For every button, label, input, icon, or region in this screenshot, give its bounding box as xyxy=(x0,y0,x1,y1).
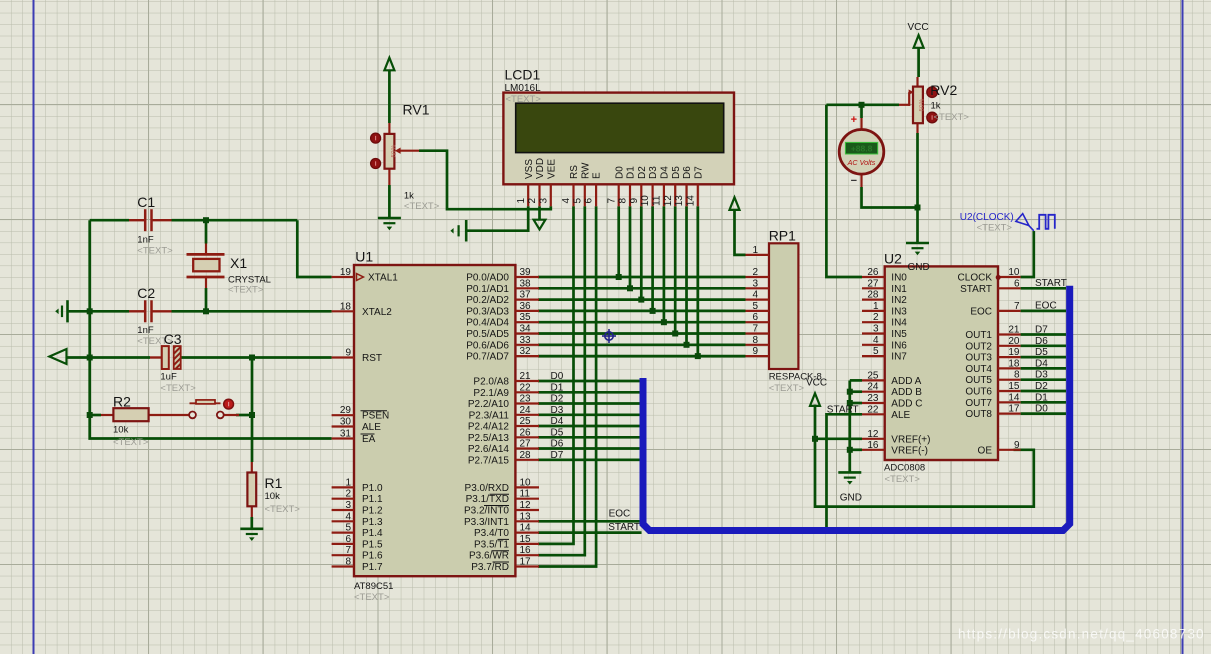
svg-text:2: 2 xyxy=(345,489,351,500)
svg-text:P1.6: P1.6 xyxy=(362,551,383,562)
svg-text:OUT5: OUT5 xyxy=(965,375,992,386)
svg-text:26: 26 xyxy=(520,427,532,438)
svg-text:OUT7: OUT7 xyxy=(965,398,992,409)
svg-text:P2.1/A9: P2.1/A9 xyxy=(473,388,509,399)
svg-text:7: 7 xyxy=(752,324,758,335)
svg-text:31: 31 xyxy=(340,429,352,440)
svg-text:D3: D3 xyxy=(551,405,564,416)
svg-text:P0.3/AD3: P0.3/AD3 xyxy=(466,306,509,317)
svg-text:4: 4 xyxy=(873,335,879,346)
svg-text:P3.0/RXD: P3.0/RXD xyxy=(465,483,509,494)
svg-text:1nF: 1nF xyxy=(137,234,154,245)
svg-text:2: 2 xyxy=(752,267,758,278)
svg-text:RV1: RV1 xyxy=(403,101,430,117)
svg-text:50%: 50% xyxy=(918,98,925,111)
svg-text:21: 21 xyxy=(520,371,532,382)
svg-text:<TEXT>: <TEXT> xyxy=(137,245,173,256)
svg-text:22: 22 xyxy=(867,404,879,415)
svg-text:EOC: EOC xyxy=(609,508,631,519)
svg-text:12: 12 xyxy=(520,500,532,511)
svg-text:EA: EA xyxy=(362,434,376,445)
svg-text:9: 9 xyxy=(752,346,758,357)
svg-text:18: 18 xyxy=(1008,358,1020,369)
svg-text:1: 1 xyxy=(873,301,879,312)
svg-text:14: 14 xyxy=(1008,392,1020,403)
svg-text:OUT2: OUT2 xyxy=(965,341,992,352)
svg-text:17: 17 xyxy=(1008,404,1020,415)
svg-text:28: 28 xyxy=(867,290,879,301)
svg-text:PSEN: PSEN xyxy=(362,411,389,422)
svg-text:<TEXT>: <TEXT> xyxy=(354,592,390,603)
svg-text:ADD A: ADD A xyxy=(891,376,921,387)
svg-text:10k: 10k xyxy=(113,425,129,436)
svg-text:3: 3 xyxy=(345,500,351,511)
svg-text:20: 20 xyxy=(1008,336,1020,347)
svg-text:C3: C3 xyxy=(164,331,182,347)
svg-text:10k: 10k xyxy=(265,491,281,502)
svg-text:XTAL1: XTAL1 xyxy=(368,273,398,284)
svg-text:P0.0/AD0: P0.0/AD0 xyxy=(466,273,509,284)
svg-text:P0.5/AD5: P0.5/AD5 xyxy=(466,329,509,340)
svg-text:P2.6/A14: P2.6/A14 xyxy=(468,444,510,455)
svg-text:27: 27 xyxy=(867,278,879,289)
svg-text:P0.4/AD4: P0.4/AD4 xyxy=(466,318,509,329)
svg-text:D7: D7 xyxy=(551,450,564,461)
svg-text:9: 9 xyxy=(345,348,351,359)
svg-text:P3.3/INT1: P3.3/INT1 xyxy=(464,517,509,528)
svg-text:GND: GND xyxy=(908,262,930,273)
svg-text:6: 6 xyxy=(752,312,758,323)
svg-text:29: 29 xyxy=(340,405,352,416)
svg-text:15: 15 xyxy=(1008,381,1020,392)
svg-text:VCC: VCC xyxy=(908,22,929,33)
svg-text:ADC0808: ADC0808 xyxy=(884,462,925,473)
svg-text:P2.4/A12: P2.4/A12 xyxy=(468,422,510,433)
svg-text:IN6: IN6 xyxy=(891,340,907,351)
svg-text:EOC: EOC xyxy=(970,306,992,317)
svg-text:14: 14 xyxy=(685,195,696,207)
svg-text:D4: D4 xyxy=(551,416,564,427)
svg-text:OUT6: OUT6 xyxy=(965,387,992,398)
svg-text:9: 9 xyxy=(1014,440,1020,451)
svg-text:<TEXT>: <TEXT> xyxy=(977,222,1013,233)
svg-text:7: 7 xyxy=(345,545,351,556)
svg-text:P1.0: P1.0 xyxy=(362,483,383,494)
svg-text:8: 8 xyxy=(618,197,629,203)
svg-text:IN4: IN4 xyxy=(891,318,907,329)
svg-text:<TEXT>: <TEXT> xyxy=(934,112,970,123)
svg-text:VCC: VCC xyxy=(806,377,827,388)
svg-text:6: 6 xyxy=(1014,278,1020,289)
svg-text:P1.7: P1.7 xyxy=(362,562,383,573)
svg-text:D4: D4 xyxy=(660,166,671,179)
svg-text:P3.4/T0: P3.4/T0 xyxy=(474,528,509,539)
svg-text:8: 8 xyxy=(345,557,351,568)
svg-text:D5: D5 xyxy=(671,166,682,179)
svg-text:P3.1/TXD: P3.1/TXD xyxy=(466,494,509,505)
svg-text:LCD1: LCD1 xyxy=(505,67,541,83)
svg-text:D5: D5 xyxy=(1035,347,1048,358)
svg-text:RW: RW xyxy=(580,162,591,179)
svg-text:9: 9 xyxy=(629,197,640,203)
svg-text:U1: U1 xyxy=(355,249,373,265)
svg-text:START: START xyxy=(960,284,992,295)
svg-text:32: 32 xyxy=(520,346,532,357)
svg-text:D4: D4 xyxy=(1035,358,1048,369)
svg-text:ADD C: ADD C xyxy=(891,399,922,410)
svg-text:P0.7/AD7: P0.7/AD7 xyxy=(466,352,509,363)
svg-text:IN7: IN7 xyxy=(891,352,907,363)
svg-text:7: 7 xyxy=(606,197,617,203)
svg-text:D3: D3 xyxy=(648,166,659,179)
svg-text:D2: D2 xyxy=(637,166,648,179)
svg-text:16: 16 xyxy=(520,545,532,556)
svg-text:EOC: EOC xyxy=(1035,300,1057,311)
svg-text:26: 26 xyxy=(867,267,879,278)
svg-text:1uF: 1uF xyxy=(160,372,177,383)
svg-text:28: 28 xyxy=(520,450,532,461)
svg-text:21: 21 xyxy=(1008,325,1020,336)
svg-text:15: 15 xyxy=(520,534,532,545)
svg-text:OUT3: OUT3 xyxy=(965,353,992,364)
svg-text:5: 5 xyxy=(752,301,758,312)
svg-text:P1.4: P1.4 xyxy=(362,528,383,539)
svg-text:RP1: RP1 xyxy=(769,228,796,244)
svg-text:VEE: VEE xyxy=(546,159,557,179)
svg-text:P0.6/AD6: P0.6/AD6 xyxy=(466,340,509,351)
svg-text:+: + xyxy=(851,114,857,126)
svg-text:OUT1: OUT1 xyxy=(965,330,992,341)
svg-text:−: − xyxy=(851,175,857,187)
svg-text:U2: U2 xyxy=(884,251,902,267)
svg-text:1: 1 xyxy=(516,197,527,203)
svg-text:4: 4 xyxy=(561,197,572,203)
svg-text:P2.3/A11: P2.3/A11 xyxy=(469,410,510,421)
svg-text:R1: R1 xyxy=(265,475,283,491)
svg-text:D5: D5 xyxy=(551,427,564,438)
svg-text:R2: R2 xyxy=(113,394,131,410)
svg-text:VSS: VSS xyxy=(524,159,535,179)
svg-text:6: 6 xyxy=(584,197,595,203)
svg-text:CLOCK: CLOCK xyxy=(958,273,993,284)
svg-text:1nF: 1nF xyxy=(137,325,154,336)
svg-text:P0.1/AD1: P0.1/AD1 xyxy=(466,284,509,295)
svg-text:11: 11 xyxy=(520,489,531,500)
svg-text:1: 1 xyxy=(345,477,351,488)
svg-text:5: 5 xyxy=(873,346,879,357)
svg-text:D6: D6 xyxy=(1035,336,1048,347)
svg-text:23: 23 xyxy=(867,393,879,404)
svg-text:P2.7/A15: P2.7/A15 xyxy=(468,455,510,466)
svg-text:5: 5 xyxy=(345,523,351,534)
svg-text:P1.3: P1.3 xyxy=(362,517,383,528)
svg-text:11: 11 xyxy=(652,195,663,206)
svg-text:50%: 50% xyxy=(390,144,397,157)
svg-text:P2.5/A13: P2.5/A13 xyxy=(468,433,510,444)
svg-text:XTAL2: XTAL2 xyxy=(362,307,392,318)
svg-text:1: 1 xyxy=(752,245,758,256)
svg-text:<TEXT>: <TEXT> xyxy=(228,285,264,296)
svg-text:P2.0/A8: P2.0/A8 xyxy=(473,377,509,388)
svg-text:38: 38 xyxy=(520,278,532,289)
svg-text:25: 25 xyxy=(520,416,532,427)
svg-text:22: 22 xyxy=(520,382,532,393)
svg-text:33: 33 xyxy=(520,335,532,346)
svg-text:D6: D6 xyxy=(551,439,564,450)
svg-text:https://blog.csdn.net/qq_40608: https://blog.csdn.net/qq_40608730 xyxy=(958,627,1205,642)
svg-text:34: 34 xyxy=(520,324,532,335)
svg-text:4: 4 xyxy=(752,290,758,301)
svg-text:D1: D1 xyxy=(626,166,637,179)
svg-text:IN0: IN0 xyxy=(891,273,907,284)
svg-text:ALE: ALE xyxy=(891,410,910,421)
svg-text:P0.2/AD2: P0.2/AD2 xyxy=(466,295,509,306)
svg-text:VREF(-): VREF(-) xyxy=(891,445,928,456)
svg-text:13: 13 xyxy=(674,195,685,207)
svg-text:7: 7 xyxy=(1014,301,1020,312)
svg-text:D3: D3 xyxy=(1035,370,1048,381)
svg-text:<TEXT>: <TEXT> xyxy=(885,474,921,485)
svg-text:3: 3 xyxy=(538,197,549,203)
svg-text:ALE: ALE xyxy=(362,422,381,433)
svg-text:27: 27 xyxy=(520,439,532,450)
svg-text:AC Volts: AC Volts xyxy=(847,158,876,167)
svg-text:IN3: IN3 xyxy=(891,306,907,317)
svg-text:12: 12 xyxy=(663,195,674,207)
svg-text:10: 10 xyxy=(640,195,651,207)
svg-text:RS: RS xyxy=(569,165,580,179)
svg-text:13: 13 xyxy=(520,511,532,522)
svg-text:OUT4: OUT4 xyxy=(965,364,992,375)
svg-text:12: 12 xyxy=(867,429,879,440)
svg-text:30: 30 xyxy=(340,417,352,428)
svg-text:1k: 1k xyxy=(404,190,414,201)
svg-text:X1: X1 xyxy=(230,255,247,271)
svg-text:8: 8 xyxy=(752,335,758,346)
svg-text:19: 19 xyxy=(340,267,352,278)
svg-text:D0: D0 xyxy=(1035,404,1048,415)
svg-text:24: 24 xyxy=(867,382,879,393)
svg-text:ADD B: ADD B xyxy=(891,387,922,398)
svg-text:D0: D0 xyxy=(551,371,564,382)
svg-text:LM016L: LM016L xyxy=(505,83,542,94)
svg-text:VDD: VDD xyxy=(535,158,546,179)
svg-text:39: 39 xyxy=(520,267,532,278)
svg-text:D7: D7 xyxy=(1035,325,1048,336)
svg-text:<TEXT>: <TEXT> xyxy=(404,201,440,212)
svg-text:5: 5 xyxy=(572,197,583,203)
svg-text:2: 2 xyxy=(873,312,879,323)
svg-text:P3.6/WR: P3.6/WR xyxy=(469,551,509,562)
svg-text:E: E xyxy=(592,172,603,179)
svg-text:24: 24 xyxy=(520,405,532,416)
svg-text:1k: 1k xyxy=(931,101,941,112)
svg-text:25: 25 xyxy=(867,370,879,381)
svg-text:37: 37 xyxy=(520,290,532,301)
svg-text:2: 2 xyxy=(527,197,538,203)
svg-text:<TEXT>: <TEXT> xyxy=(160,383,196,394)
svg-text:<TEXT>: <TEXT> xyxy=(506,94,542,105)
svg-text:18: 18 xyxy=(340,301,352,312)
svg-text:D6: D6 xyxy=(682,166,693,179)
svg-text:17: 17 xyxy=(520,557,532,568)
svg-text:GND: GND xyxy=(840,492,862,503)
svg-text:IN2: IN2 xyxy=(891,295,907,306)
svg-text:D0: D0 xyxy=(614,166,625,179)
svg-text:RV2: RV2 xyxy=(930,82,957,98)
svg-text:P2.2/A10: P2.2/A10 xyxy=(468,399,510,410)
svg-text:P3.7/RD: P3.7/RD xyxy=(471,562,509,573)
svg-text:35: 35 xyxy=(520,312,532,323)
svg-text:START: START xyxy=(1035,278,1067,289)
svg-text:4: 4 xyxy=(345,511,351,522)
svg-text:<TEXT>: <TEXT> xyxy=(113,437,149,448)
svg-text:P1.5: P1.5 xyxy=(362,539,383,550)
svg-text:OE: OE xyxy=(978,445,993,456)
svg-text:P3.5/T1: P3.5/T1 xyxy=(474,539,509,550)
svg-text:+88.8: +88.8 xyxy=(851,144,873,154)
svg-text:<TEXT>: <TEXT> xyxy=(265,504,301,515)
svg-text:C1: C1 xyxy=(137,194,155,210)
svg-text:START: START xyxy=(827,405,859,416)
svg-text:10: 10 xyxy=(1008,267,1020,278)
svg-text:IN1: IN1 xyxy=(891,284,907,295)
svg-text:C2: C2 xyxy=(137,285,155,301)
svg-text:U2(CLOCK): U2(CLOCK) xyxy=(960,212,1014,223)
svg-text:OUT8: OUT8 xyxy=(965,409,992,420)
svg-text:P1.2: P1.2 xyxy=(362,506,383,517)
svg-text:10: 10 xyxy=(520,477,532,488)
svg-text:6: 6 xyxy=(345,534,351,545)
svg-text:P1.1: P1.1 xyxy=(362,494,383,505)
svg-text:P3.2/INT0: P3.2/INT0 xyxy=(464,506,509,517)
svg-text:IN5: IN5 xyxy=(891,329,907,340)
svg-text:START: START xyxy=(608,522,640,533)
svg-text:3: 3 xyxy=(873,324,879,335)
svg-text:AT89C51: AT89C51 xyxy=(354,581,393,592)
svg-text:8: 8 xyxy=(1014,370,1020,381)
svg-text:36: 36 xyxy=(520,301,532,312)
svg-text:3: 3 xyxy=(752,278,758,289)
svg-text:14: 14 xyxy=(520,523,532,534)
svg-text:RST: RST xyxy=(362,353,382,364)
svg-text:D2: D2 xyxy=(551,394,564,405)
svg-text:<TEXT>: <TEXT> xyxy=(769,383,805,394)
svg-text:23: 23 xyxy=(520,394,532,405)
svg-text:19: 19 xyxy=(1008,347,1020,358)
svg-text:D2: D2 xyxy=(1035,381,1048,392)
svg-text:VREF(+): VREF(+) xyxy=(891,434,930,445)
svg-text:D1: D1 xyxy=(1035,392,1048,403)
svg-text:D1: D1 xyxy=(551,382,564,393)
svg-text:16: 16 xyxy=(867,440,879,451)
svg-text:D7: D7 xyxy=(693,166,704,179)
